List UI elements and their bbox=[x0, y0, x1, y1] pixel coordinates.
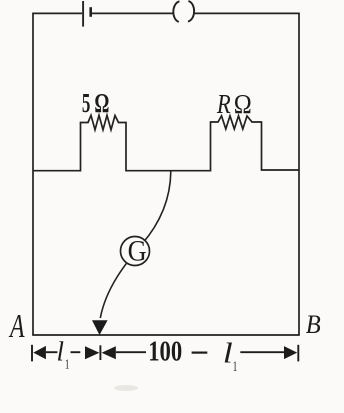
svg-text:1: 1 bbox=[65, 357, 70, 372]
svg-text:R: R bbox=[216, 89, 231, 119]
svg-text:Ω: Ω bbox=[94, 88, 109, 118]
svg-text:5: 5 bbox=[82, 88, 91, 118]
svg-text:B: B bbox=[306, 310, 321, 339]
svg-text:l: l bbox=[223, 337, 233, 369]
svg-text:Ω: Ω bbox=[234, 88, 252, 119]
svg-text:G: G bbox=[128, 234, 147, 267]
svg-text:l: l bbox=[57, 336, 65, 366]
svg-text:1: 1 bbox=[233, 359, 238, 375]
svg-text:A: A bbox=[9, 308, 25, 345]
svg-text:100: 100 bbox=[148, 337, 182, 368]
